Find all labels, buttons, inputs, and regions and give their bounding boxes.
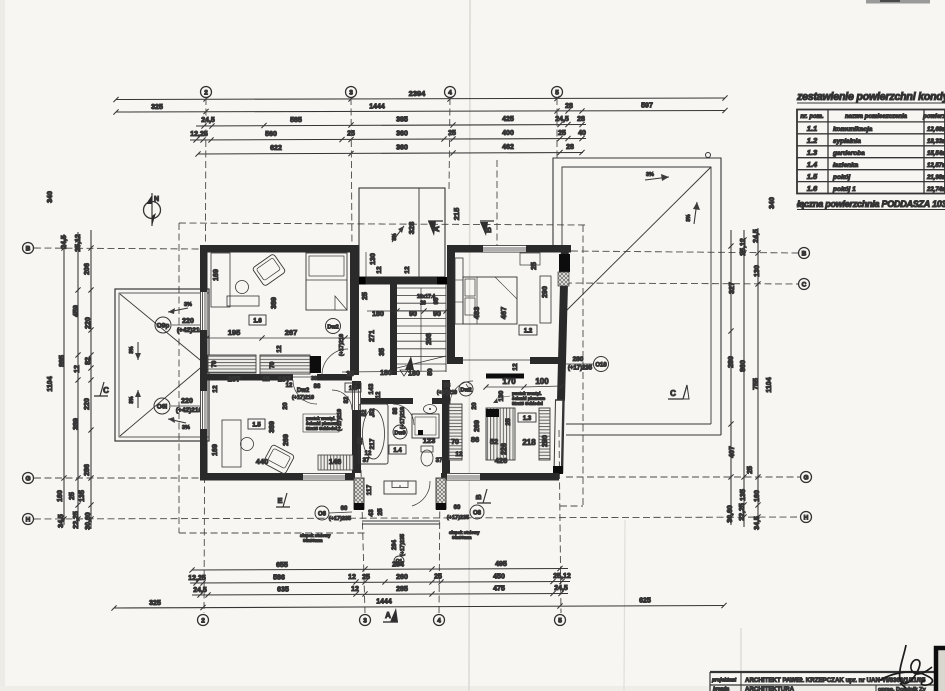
svg-text:135: 135	[79, 490, 86, 502]
shower	[412, 414, 439, 438]
dimension chain row3: 24,5 585 385 425 24,5 28	[196, 116, 586, 129]
south terrace door step	[384, 481, 416, 494]
balcony slope arrow lower	[129, 390, 141, 408]
svg-text:389: 389	[271, 297, 278, 309]
svg-text:1.4: 1.4	[393, 448, 402, 454]
svg-text:(+42)210: (+42)210	[176, 407, 203, 414]
svg-text:12: 12	[512, 363, 519, 371]
grid line 5 dashed vertical top	[556, 98, 558, 160]
svg-text:290: 290	[542, 286, 549, 298]
svg-text:340: 340	[47, 191, 54, 203]
svg-text:12,25: 12,25	[188, 575, 206, 582]
svg-text:12: 12	[455, 451, 463, 458]
svg-text:5: 5	[558, 617, 562, 624]
room 1.1 label box	[345, 383, 361, 392]
svg-text:(+17)235: (+17)235	[400, 534, 406, 556]
svg-text:207: 207	[228, 375, 241, 384]
svg-text:12: 12	[404, 266, 411, 274]
svg-text:C: C	[103, 386, 109, 395]
svg-text:269: 269	[283, 434, 290, 446]
svg-text:86: 86	[471, 435, 479, 444]
svg-text:286: 286	[84, 464, 91, 476]
svg-text:3%: 3%	[392, 233, 398, 241]
svg-text:3: 3	[363, 617, 367, 624]
svg-text:25: 25	[558, 130, 566, 137]
dimension chain bottom row4: 325 1444 625	[111, 598, 726, 611]
svg-text:projektant: projektant	[711, 678, 737, 684]
svg-text:586: 586	[273, 575, 285, 582]
svg-text:360: 360	[396, 131, 408, 138]
wardrobe 1.3 strip west	[486, 408, 515, 460]
wall: interior grid3 lower (1.5/bath)	[352, 381, 361, 473]
room 1.5 label box	[248, 419, 265, 429]
svg-text:38: 38	[311, 376, 317, 382]
room 1.5 armchair	[263, 444, 295, 474]
window box east wall black	[559, 254, 570, 272]
wardrobe dims 207 12 197	[207, 375, 352, 393]
grid bubble 5 bottom	[555, 615, 566, 626]
svg-text:21,98m: 21,98m	[926, 175, 945, 181]
wall: interior grid3 upper (1.6/corridor)	[350, 252, 359, 375]
svg-text:218: 218	[522, 438, 536, 447]
balcony slope arrow upper	[129, 342, 141, 360]
svg-text:(+17)235: (+17)235	[447, 515, 469, 521]
svg-text:143: 143	[368, 383, 375, 394]
svg-text:12: 12	[376, 391, 382, 398]
svg-text:625: 625	[639, 598, 651, 605]
wall: north wall under terrace	[356, 277, 447, 285]
terrace dims 117 43 25	[366, 484, 384, 516]
signature scribble	[880, 645, 932, 688]
svg-text:260: 260	[396, 574, 408, 581]
svg-text:400: 400	[502, 130, 514, 137]
svg-text:635: 635	[277, 587, 289, 594]
upper terrace slope arrow	[392, 226, 404, 242]
svg-text:12: 12	[365, 451, 372, 457]
svg-text:ARCHITEKT PAWEŁ KRZEPCZAK upr: ARCHITEKT PAWEŁ KRZEPCZAK upr. nr UAN-VI…	[745, 677, 926, 684]
window label O6 south	[315, 506, 352, 522]
balcony roof slope diagonals	[120, 294, 205, 364]
svg-text:łazienka: łazienka	[833, 162, 859, 169]
svg-text:O9p: O9p	[157, 323, 170, 330]
svg-text:52x25 Schiedel: 52x25 Schiedel	[512, 401, 543, 406]
scan edge shading	[0, 0, 5, 691]
svg-text:12,25: 12,25	[190, 131, 208, 138]
washbasin	[424, 405, 437, 414]
svg-text:25,12: 25,12	[75, 234, 82, 252]
svg-text:18,33m: 18,33m	[927, 139, 945, 145]
svg-text:34,5: 34,5	[754, 516, 761, 530]
left dim chain lines	[61, 230, 93, 529]
roof terrace double bottom edge	[566, 423, 711, 425]
svg-text:Dw2: Dw2	[327, 325, 338, 331]
wall: bedroom south wall	[447, 357, 463, 364]
svg-text:3%: 3%	[646, 172, 654, 178]
wall: garderoba strip south of 1.6	[207, 374, 293, 381]
bathtub	[359, 404, 388, 464]
svg-text:1.5: 1.5	[252, 423, 261, 429]
bedroom 1.2 label box	[519, 325, 537, 335]
grid bubble 5 top	[552, 87, 563, 98]
svg-text:130: 130	[498, 390, 505, 401]
svg-text:branża: branża	[713, 687, 729, 691]
room 1.6 bed	[306, 253, 347, 310]
svg-text:B: B	[484, 227, 493, 233]
south terrace edge	[362, 520, 440, 522]
wall: bedroom west wall	[447, 252, 455, 357]
dimension chain row5: 622 360 462 28	[195, 144, 584, 157]
svg-text:60: 60	[341, 506, 348, 512]
svg-text:52: 52	[490, 437, 498, 446]
grid line G dashed horizontal left	[34, 477, 200, 479]
svg-text:280: 280	[728, 356, 735, 368]
svg-text:nr. pom.: nr. pom.	[800, 114, 824, 120]
svg-text:12: 12	[376, 266, 383, 274]
svg-text:37: 37	[363, 458, 370, 464]
north compass	[144, 193, 161, 226]
svg-text:169: 169	[212, 444, 219, 456]
door label O9p with arrow	[155, 302, 206, 334]
terrace door label 294	[392, 534, 406, 566]
svg-text:80x80mm: 80x80mm	[452, 535, 472, 540]
svg-text:H: H	[26, 516, 31, 523]
svg-text:26: 26	[420, 301, 426, 307]
room 1.6 desk and stool	[211, 253, 230, 307]
door label Dw2 room 1.5	[292, 388, 314, 401]
svg-text:425: 425	[502, 116, 514, 123]
svg-text:G: G	[25, 475, 30, 482]
grid bubble 2 bottom	[198, 615, 209, 626]
svg-text:25: 25	[362, 574, 370, 581]
grid bubble B left	[23, 243, 34, 254]
dimension chain row1 total 2394	[113, 89, 727, 102]
svg-text:1104: 1104	[47, 376, 54, 391]
grid line B dashed horizontal right	[571, 251, 798, 253]
grid line 2 dashed vertical	[204, 98, 206, 613]
svg-text:G: G	[803, 474, 808, 481]
svg-text:(+17)210: (+17)210	[337, 409, 343, 431]
svg-text:pokój: pokój	[832, 174, 851, 181]
attic outline dashed rectangle	[179, 223, 585, 225]
svg-text:22,25: 22,25	[739, 503, 746, 521]
grid line 4 dashed vertical bottom	[439, 480, 440, 613]
svg-text:1.3: 1.3	[523, 416, 532, 422]
svg-text:3%: 3%	[129, 396, 135, 404]
svg-text:130: 130	[754, 265, 761, 277]
svg-text:585: 585	[290, 117, 302, 124]
grid line 5 dashed vertical bottom	[559, 430, 561, 613]
grid bubble H right	[801, 512, 812, 523]
grid bubble H left	[23, 514, 34, 525]
svg-text:1.1: 1.1	[349, 386, 358, 392]
svg-text:325: 325	[151, 104, 163, 111]
svg-text:28: 28	[566, 144, 574, 151]
svg-text:80x80mm: 80x80mm	[303, 538, 323, 543]
wall: stairwell west wall	[390, 284, 397, 375]
svg-text:3: 3	[349, 89, 353, 96]
wall: east wall upper	[557, 245, 569, 400]
section marker C west	[94, 382, 109, 396]
svg-text:52: 52	[362, 409, 368, 416]
grid bubble G left	[23, 473, 34, 484]
right dim labels	[727, 197, 776, 530]
svg-text:325: 325	[149, 600, 161, 607]
svg-text:294: 294	[392, 539, 398, 550]
area table title	[796, 91, 945, 103]
svg-text:35: 35	[379, 348, 386, 356]
svg-text:217: 217	[369, 438, 376, 449]
svg-text:12,57m: 12,57m	[927, 163, 945, 169]
svg-text:C: C	[670, 389, 676, 398]
left dim labels	[47, 191, 92, 530]
svg-text:180: 180	[372, 311, 384, 318]
bedroom wardrobe right	[540, 276, 551, 323]
svg-text:N: N	[154, 196, 159, 203]
area table total	[797, 199, 945, 210]
grid bubble C right	[799, 279, 810, 290]
svg-text:459: 459	[73, 305, 80, 317]
grid line H dashed horizontal	[34, 517, 800, 519]
stairs annotation	[362, 292, 449, 356]
dimension chain bottom row1: 655 294 495	[189, 561, 568, 573]
section marker B south	[474, 489, 491, 503]
post label west	[300, 533, 331, 543]
svg-text:12,69m: 12,69m	[927, 127, 945, 133]
svg-text:3%: 3%	[129, 346, 135, 354]
svg-text:462: 462	[502, 144, 514, 151]
grid bubble 3 bottom	[360, 615, 371, 626]
svg-text:206: 206	[84, 263, 91, 275]
corner stamp box	[936, 648, 945, 691]
dimension chain row4: 12,25 560 25 360 25 400 25 40	[190, 130, 586, 143]
svg-text:170: 170	[502, 377, 516, 386]
door Dw2 opening room 1.5	[293, 376, 317, 378]
roof slope arrow right 1	[645, 172, 669, 181]
title block frame	[710, 672, 945, 691]
svg-text:327: 327	[729, 282, 736, 294]
svg-text:1.5: 1.5	[807, 172, 818, 181]
wall: north wall room 1.2 with window	[447, 245, 571, 253]
svg-text:O1: O1	[396, 559, 403, 565]
svg-text:2394: 2394	[409, 89, 427, 98]
svg-text:24,5: 24,5	[753, 229, 760, 243]
roof terrace diagonal	[564, 167, 711, 313]
svg-text:267: 267	[285, 328, 298, 337]
svg-text:E: E	[277, 496, 282, 505]
svg-text:H: H	[804, 514, 809, 521]
svg-text:160: 160	[754, 490, 761, 502]
svg-text:25: 25	[362, 292, 369, 300]
svg-text:20: 20	[282, 402, 289, 410]
balcony west outline	[115, 289, 209, 441]
roof ridge dashed vertical	[496, 160, 498, 250]
svg-text:82: 82	[85, 357, 92, 365]
vent text west	[303, 414, 340, 432]
corridor dims	[368, 383, 406, 429]
grid bubble 4 top	[445, 87, 456, 98]
svg-text:2: 2	[204, 89, 208, 96]
svg-text:1.4: 1.4	[807, 160, 818, 169]
svg-text:powierzc: powierzc	[922, 114, 945, 120]
grid bubble B right	[799, 248, 810, 259]
wardrobe black box	[310, 356, 321, 373]
svg-text:95: 95	[434, 297, 440, 304]
svg-text:88: 88	[314, 384, 321, 390]
svg-text:25,12: 25,12	[740, 238, 747, 256]
wall: corridor east / garderoba west	[442, 380, 450, 473]
south terrace east wall	[436, 478, 446, 509]
vertical fold crease center	[469, 0, 470, 691]
svg-text:Dw9: Dw9	[394, 431, 405, 437]
svg-text:12: 12	[212, 385, 219, 393]
svg-text:220: 220	[85, 317, 92, 329]
svg-text:597: 597	[641, 103, 653, 110]
svg-text:Dw2: Dw2	[297, 388, 310, 394]
bedroom closet west wall strip	[455, 258, 463, 324]
svg-text:215: 215	[452, 208, 461, 221]
room 1.5 wardrobe/desk	[222, 420, 241, 467]
svg-text:560: 560	[265, 131, 277, 138]
svg-text:A: A	[432, 226, 441, 232]
radiator room 1.1	[318, 455, 353, 470]
svg-text:25: 25	[434, 574, 442, 581]
scan smudge top-right edge	[866, 0, 930, 4]
svg-text:pokój 1: pokój 1	[832, 186, 856, 193]
garderoba dims	[451, 363, 564, 465]
svg-text:C: C	[802, 281, 807, 288]
wardrobe 1.3 strip east	[539, 408, 550, 460]
garderoba 1.3 label box	[518, 413, 536, 422]
grid line B dashed horizontal left	[34, 248, 200, 249]
svg-text:389: 389	[269, 421, 276, 433]
svg-text:70: 70	[451, 439, 459, 446]
svg-text:B: B	[26, 245, 31, 252]
svg-text:340: 340	[769, 197, 776, 209]
roof slope arrow right 2	[686, 202, 700, 224]
bathroom 1.4 label box	[389, 445, 406, 454]
svg-text:25: 25	[377, 508, 384, 516]
svg-text:195: 195	[228, 328, 241, 337]
svg-text:15,54m: 15,54m	[927, 151, 945, 157]
svg-text:135: 135	[740, 489, 747, 501]
stairs bottom dims 35 180 180 50	[342, 368, 446, 378]
wall: north wall room 1.6	[200, 245, 359, 253]
room 1.6 armchair	[252, 254, 286, 287]
area table	[797, 110, 945, 194]
svg-text:90: 90	[433, 311, 441, 318]
svg-text:70: 70	[212, 360, 218, 367]
svg-text:389: 389	[73, 418, 80, 430]
svg-text:467: 467	[499, 307, 508, 320]
svg-text:60: 60	[454, 505, 461, 511]
svg-text:208: 208	[426, 333, 433, 345]
svg-text:1444: 1444	[376, 599, 392, 606]
svg-text:885: 885	[59, 355, 66, 367]
grid line G dashed horizontal right	[566, 476, 800, 478]
svg-text:3%: 3%	[184, 302, 192, 308]
stairs treads	[397, 284, 446, 372]
svg-text:25: 25	[505, 418, 512, 426]
svg-text:271: 271	[369, 330, 376, 342]
svg-text:B: B	[474, 494, 483, 500]
toilet	[421, 446, 433, 452]
svg-text:25: 25	[358, 437, 364, 444]
room 1.6 dim line 195 267	[204, 328, 350, 353]
svg-text:(+17)210: (+17)210	[339, 334, 345, 356]
wall: south wall east segment	[441, 473, 559, 481]
right dim chain lines	[728, 228, 760, 529]
svg-text:24,5: 24,5	[201, 117, 215, 124]
svg-text:475: 475	[493, 586, 505, 593]
svg-text:łączna powierzchnia PODDASZA 1: łączna powierzchnia PODDASZA 103,65	[797, 199, 945, 209]
svg-text:25: 25	[747, 466, 754, 474]
svg-text:12: 12	[286, 383, 293, 389]
svg-text:18x17.4: 18x17.4	[417, 294, 435, 300]
svg-text:1.1: 1.1	[807, 124, 817, 133]
svg-text:860: 860	[740, 360, 747, 372]
svg-text:12: 12	[262, 376, 270, 383]
svg-text:30,60: 30,60	[727, 505, 734, 523]
svg-text:43: 43	[368, 509, 375, 517]
svg-text:12: 12	[351, 586, 359, 593]
svg-text:285: 285	[396, 586, 408, 593]
roof terrace outline east	[553, 158, 721, 435]
svg-text:450: 450	[493, 574, 505, 581]
svg-text:52x25 Schiedel: 52x25 Schiedel	[306, 426, 337, 431]
svg-text:(+42)210: (+42)210	[177, 327, 204, 334]
svg-text:28: 28	[565, 103, 573, 110]
svg-text:130: 130	[370, 253, 377, 265]
upper terrace outline	[359, 188, 445, 277]
svg-text:220: 220	[181, 398, 193, 405]
grid line 4 dashed vertical top	[449, 98, 450, 190]
svg-text:2: 2	[201, 617, 205, 624]
svg-text:82: 82	[344, 396, 350, 403]
grid line 3 dashed vertical top	[351, 98, 352, 250]
svg-text:(+17)235: (+17)235	[568, 366, 593, 372]
vertical fold crease right-bottom	[624, 520, 625, 691]
dimension chain row2: 325 1444 28 597	[113, 103, 727, 115]
svg-text:12: 12	[276, 345, 283, 353]
svg-text:146: 146	[329, 457, 342, 466]
svg-text:1.6: 1.6	[253, 319, 262, 325]
svg-text:180: 180	[380, 370, 392, 377]
svg-text:407: 407	[729, 446, 736, 458]
grid bubble 3 top	[346, 87, 357, 98]
svg-text:117: 117	[366, 484, 373, 495]
section marker A top	[428, 221, 443, 236]
svg-text:12: 12	[348, 574, 356, 581]
svg-text:zestawienie powierzchni kondyg: zestawienie powierzchni kondygnacji	[796, 91, 945, 103]
svg-text:1.3: 1.3	[807, 148, 818, 157]
svg-text:226: 226	[501, 443, 508, 455]
svg-text:O10: O10	[595, 363, 607, 369]
svg-text:37: 37	[436, 458, 443, 464]
svg-text:ARCHITEKTURA: ARCHITEKTURA	[745, 686, 795, 691]
title block row branza	[713, 686, 927, 691]
svg-text:90: 90	[409, 311, 417, 318]
grid bubble G right	[801, 472, 812, 483]
svg-text:24,5: 24,5	[193, 587, 207, 594]
svg-text:160: 160	[57, 490, 64, 502]
wall: corridor/bath divider	[361, 398, 413, 404]
svg-text:24,5: 24,5	[61, 235, 68, 249]
door label O6l with arrow	[154, 398, 206, 431]
svg-text:88: 88	[444, 383, 451, 389]
svg-text:O6: O6	[318, 512, 327, 518]
svg-text:20: 20	[471, 402, 478, 410]
section marker C right	[668, 385, 689, 399]
